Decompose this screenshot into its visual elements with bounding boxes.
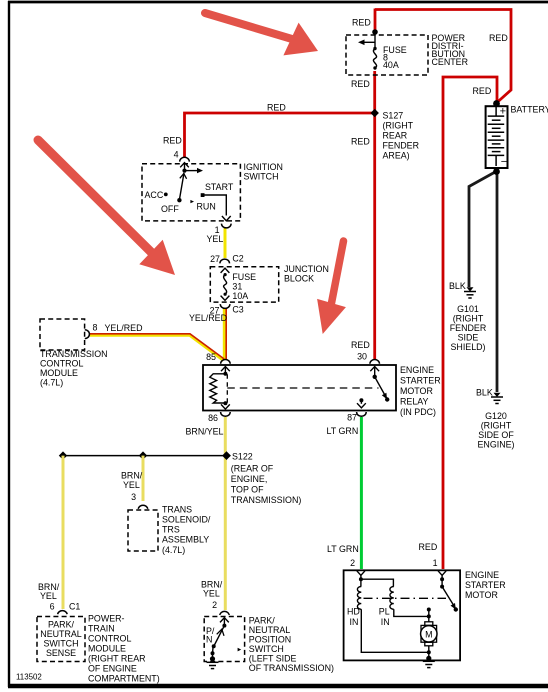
svg-text:40A: 40A [383, 60, 399, 70]
svg-text:NEUTRAL: NEUTRAL [40, 629, 81, 639]
node S127 [371, 109, 379, 117]
svg-text:STARTER: STARTER [465, 580, 506, 590]
svg-text:RED: RED [351, 340, 370, 350]
svg-text:(RIGHT: (RIGHT [453, 314, 484, 324]
svg-text:30: 30 [357, 352, 367, 362]
node on bus (middle) [139, 451, 147, 459]
svg-text:2: 2 [212, 600, 217, 610]
svg-text:TRANSMISSION): TRANSMISSION) [231, 495, 302, 505]
svg-text:CENTER: CENTER [432, 57, 469, 67]
svg-text:LT GRN: LT GRN [327, 544, 359, 554]
svg-text:ENGINE: ENGINE [465, 570, 499, 580]
svg-text:LT GRN: LT GRN [327, 426, 359, 436]
node S122 [222, 451, 231, 460]
battery [486, 106, 508, 168]
svg-text:MODULE: MODULE [40, 368, 78, 378]
svg-text:85: 85 [206, 352, 216, 362]
wire RED: fuse8 top to battery positive [375, 10, 511, 103]
svg-text:RED: RED [351, 137, 370, 147]
motor top contact stubs [427, 608, 431, 612]
svg-text:−: − [501, 156, 507, 168]
connector arc pin 1 [222, 224, 232, 228]
node on bus (left) [59, 451, 67, 459]
svg-text:OF ENGINE: OF ENGINE [88, 664, 137, 674]
highlight arrow 1 (top, pointing to PDC fuse) [205, 13, 318, 55]
svg-text:YEL/RED: YEL/RED [105, 323, 143, 333]
svg-text:ENGINE,: ENGINE, [231, 474, 267, 484]
wire LT GRN: relay pin 87 to starter motor pin 2 [360, 417, 363, 569]
relay K1 box [203, 365, 396, 411]
svg-text:NEUTRAL: NEUTRAL [249, 625, 290, 635]
svg-text:SIDE: SIDE [458, 333, 479, 343]
svg-text:G120: G120 [485, 411, 507, 421]
svg-text:(4.7L): (4.7L) [40, 378, 63, 388]
ignition output wire to pin 1 [204, 195, 226, 216]
wire YEL: ignition pin1 to junction C2 [224, 228, 227, 258]
motor armature link (dash-dot) [364, 597, 447, 599]
motor switch pin 1 [438, 571, 446, 576]
connector arc pin 87 [357, 412, 367, 416]
ignition common terminal arrow [180, 163, 189, 168]
svg-text:PARK/: PARK/ [48, 620, 75, 630]
svg-text:ENGINE): ENGINE) [478, 440, 515, 450]
svg-text:COMPARTMENT): COMPARTMENT) [88, 674, 160, 684]
svg-text:SENSE: SENSE [46, 648, 76, 658]
PL coil wire [361, 579, 394, 586]
svg-text:IN: IN [350, 617, 359, 627]
wire RED: S127 to ignition switch pin 4 [185, 113, 375, 157]
svg-text:POWER-: POWER- [88, 614, 125, 624]
svg-text:+: + [500, 106, 506, 118]
svg-text:MOTOR: MOTOR [465, 590, 498, 600]
svg-text:SOLENOID/: SOLENOID/ [162, 515, 211, 525]
trans solenoid box [128, 510, 158, 551]
fuse F31 bottom arrow [221, 296, 230, 301]
svg-text:BRN/YEL: BRN/YEL [186, 427, 224, 437]
svg-text:87: 87 [347, 413, 357, 423]
relay coil terminal arrow 85 [221, 367, 230, 372]
svg-text:SWITCH: SWITCH [43, 639, 78, 649]
transmission control module box [40, 319, 85, 350]
svg-text:SWITCH: SWITCH [249, 644, 284, 654]
page border top [8, 1, 548, 4]
svg-text:BLOCK: BLOCK [284, 274, 314, 284]
svg-text:YEL: YEL [123, 480, 140, 490]
svg-text:(IN PDC): (IN PDC) [400, 407, 436, 417]
svg-text:6: 6 [50, 602, 55, 612]
junction block box [210, 267, 278, 302]
node fuse 8 top [372, 29, 378, 35]
svg-text:RED: RED [351, 79, 370, 89]
svg-text:BATTERY: BATTERY [511, 105, 548, 115]
svg-text:G101: G101 [457, 304, 479, 314]
svg-text:TRS: TRS [162, 525, 180, 535]
svg-text:SIDE OF: SIDE OF [478, 430, 514, 440]
svg-text:8: 8 [93, 323, 98, 333]
wire BRN/YEL: relay pin 86 to S122 to PNP switch pin 2 [224, 417, 227, 610]
svg-text:TRANSMISSION: TRANSMISSION [40, 349, 108, 359]
svg-text:4: 4 [174, 150, 179, 160]
park/neutral switch sense box [37, 617, 85, 662]
HD coil wire [360, 579, 362, 586]
svg-text:ASSEMBLY: ASSEMBLY [162, 535, 209, 545]
relay switch arm [370, 367, 379, 372]
svg-text:JUNCTION: JUNCTION [284, 264, 329, 274]
contact ACC [164, 193, 168, 197]
node battery positive [493, 100, 500, 107]
wire BLK: battery negative to G101 [469, 172, 496, 288]
PNS connector arc [58, 611, 68, 615]
relay coil terminal arrow 86 [221, 404, 230, 409]
svg-text:TRANS: TRANS [162, 505, 192, 515]
coil PL IN [390, 587, 394, 610]
svg-text:(4.7L): (4.7L) [162, 545, 185, 555]
svg-text:PARK/: PARK/ [249, 616, 276, 626]
svg-text:MOTOR: MOTOR [400, 386, 433, 396]
svg-text:S122: S122 [232, 452, 253, 462]
svg-text:M: M [425, 629, 432, 639]
svg-text:IN: IN [381, 617, 390, 627]
svg-text:YEL/RED: YEL/RED [189, 313, 227, 323]
wire: S122 bus horizontal [63, 455, 227, 457]
ignition arrow to right [185, 170, 199, 172]
motor M1 [425, 622, 433, 626]
PNP pin arrow [220, 618, 229, 623]
svg-text:STARTER: STARTER [400, 376, 441, 386]
coil HD IN [357, 587, 361, 610]
svg-text:113502: 113502 [16, 673, 42, 682]
connector arc pin 86 [221, 412, 231, 416]
highlight arrow 2 (left, pointing to junction block) [38, 140, 175, 275]
svg-text:HD: HD [347, 607, 360, 617]
motor switch arm [442, 587, 455, 608]
fuse F8 pull-arrow [374, 34, 376, 49]
fuse F8 element [373, 49, 376, 69]
svg-text:ACC: ACC [145, 190, 164, 200]
contact START [201, 193, 205, 197]
PNP fixed contact [238, 648, 242, 652]
svg-text:BLK: BLK [449, 281, 466, 291]
wire BRN/YEL: bus to trans solenoid pin 3 [142, 456, 145, 501]
svg-text:RED: RED [489, 33, 508, 43]
svg-text:FENDER: FENDER [383, 141, 420, 151]
wire BRN/YEL: bus to PNS pin 6 [62, 456, 65, 609]
TCM pin 8 connector bump [85, 330, 90, 339]
svg-text:86: 86 [208, 413, 218, 423]
svg-text:10A: 10A [232, 291, 248, 301]
motor ground [426, 656, 431, 661]
svg-text:(LEFT SIDE: (LEFT SIDE [249, 654, 297, 664]
PNP ground [210, 656, 215, 661]
wire YEL/RED: junction C3 to relay pin 85 [223, 309, 226, 359]
svg-text:31: 31 [232, 282, 242, 292]
page border bottom bar [8, 684, 548, 689]
svg-text:BLK: BLK [476, 388, 493, 398]
relay armature link (dashed) [226, 374, 228, 403]
svg-text:RED: RED [163, 136, 182, 146]
svg-text:(RIGHT: (RIGHT [383, 121, 414, 131]
svg-text:3: 3 [131, 492, 136, 502]
svg-text:POSITION: POSITION [249, 635, 291, 645]
motor pin 2 arrow [357, 571, 365, 576]
svg-text:YEL: YEL [40, 591, 57, 601]
contact OFF [177, 198, 181, 202]
svg-text:YEL: YEL [203, 589, 220, 599]
svg-text:2: 2 [350, 558, 355, 568]
svg-text:RED: RED [473, 86, 492, 96]
svg-text:C2: C2 [232, 254, 243, 264]
svg-text:START: START [205, 182, 234, 192]
svg-text:RELAY: RELAY [400, 397, 429, 407]
relay coil [210, 374, 226, 403]
svg-text:MODULE: MODULE [88, 644, 126, 654]
svg-text:REAR: REAR [383, 131, 408, 141]
motor ground wire [428, 646, 430, 658]
wire RED: fuse8 bottom through S127 to relay pin 30 [373, 71, 376, 360]
svg-text:RED: RED [419, 542, 438, 552]
svg-text:C3: C3 [232, 305, 243, 315]
svg-text:OFF: OFF [161, 204, 179, 214]
junction block connector C3 [220, 304, 230, 308]
wire YEL/RED: TCM pin 8 to relay pin 85 [90, 335, 224, 360]
PNP switch arm [214, 626, 225, 646]
power distribution center box [346, 35, 428, 75]
engine starter motor box [344, 570, 461, 660]
svg-text:YEL: YEL [207, 234, 224, 244]
node battery negative [493, 168, 500, 175]
svg-text:OF TRANSMISSION): OF TRANSMISSION) [249, 663, 334, 673]
svg-text:FENDER: FENDER [450, 323, 487, 333]
fuse F31 top arrow [221, 268, 230, 273]
ground G101 [464, 292, 476, 299]
svg-text:N: N [206, 635, 212, 645]
wire RED: stub into PDC fuse [374, 9, 377, 32]
svg-text:FUSE: FUSE [232, 272, 256, 282]
page border left [8, 1, 10, 687]
svg-text:1: 1 [433, 558, 438, 568]
svg-text:27: 27 [210, 254, 220, 264]
ground G120 [491, 397, 503, 404]
highlight arrow 3 (middle, pointing to starter relay) [317, 241, 346, 334]
svg-text:RED: RED [267, 103, 286, 113]
relay switch fixed contact 87 [359, 398, 363, 402]
connector arc pin 85 [221, 360, 231, 364]
svg-text:TOP OF: TOP OF [231, 485, 264, 495]
connector arc pin 30 [370, 360, 380, 364]
svg-text:C1: C1 [69, 602, 80, 612]
svg-text:IGNITION: IGNITION [244, 162, 283, 172]
svg-text:SWITCH: SWITCH [244, 172, 279, 182]
svg-text:CONTROL: CONTROL [88, 634, 131, 644]
svg-text:S127: S127 [383, 111, 404, 121]
svg-text:BRN/: BRN/ [121, 471, 143, 481]
svg-text:(REAR OF: (REAR OF [231, 464, 274, 474]
contact RUN [190, 200, 194, 203]
ignition switch box [142, 164, 240, 221]
svg-text:(RIGHT: (RIGHT [481, 421, 512, 431]
svg-text:RUN: RUN [197, 202, 216, 212]
svg-text:ENGINE: ENGINE [400, 365, 434, 375]
svg-text:CONTROL: CONTROL [40, 359, 83, 369]
wire BLK: battery negative to G120 [496, 170, 499, 392]
svg-text:PL: PL [379, 607, 390, 617]
park/neutral position switch box [204, 617, 244, 662]
connector arc pin 4 [180, 157, 190, 161]
PNP connector arc [220, 611, 230, 615]
svg-text:TRAIN: TRAIN [88, 624, 115, 634]
svg-text:RED: RED [352, 18, 371, 28]
svg-text:AREA): AREA) [383, 151, 410, 161]
fuse F31 element [224, 274, 227, 294]
trans solenoid connector arc [138, 505, 148, 509]
svg-text:SHIELD): SHIELD) [450, 342, 485, 352]
svg-text:(RIGHT REAR: (RIGHT REAR [88, 654, 146, 664]
ignition switch arm [179, 173, 184, 200]
wire RED: battery positive to starter motor pin 1 [443, 77, 497, 569]
